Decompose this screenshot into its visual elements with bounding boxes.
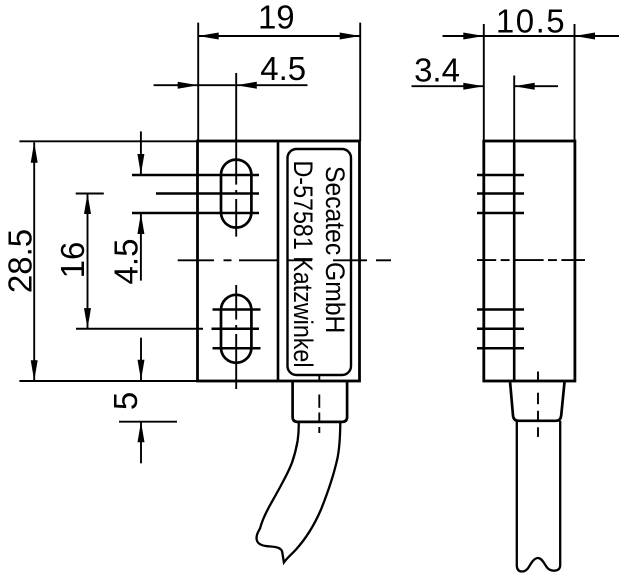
dimension 5: arrowheads outside bbox=[138, 360, 145, 381]
slot 2 middle tick line bbox=[212, 327, 260, 330]
front view body outline bbox=[198, 141, 360, 381]
boot/cable centerline side bbox=[537, 372, 539, 437]
svg-text:28.5: 28.5 bbox=[2, 229, 39, 293]
dimension 3.4: extension line bbox=[513, 76, 515, 142]
dimension 4.5 vertical: arrow tails bbox=[140, 131, 142, 175]
svg-text:19: 19 bbox=[258, 0, 295, 35]
dimension 28.5: dimension line bbox=[33, 142, 35, 380]
dimension 5: arrow tails bbox=[140, 338, 142, 381]
dimension 19: dimension line bbox=[198, 35, 360, 37]
dimension 28.5: extension lines bbox=[19, 140, 197, 142]
slot 2 upper tick line bbox=[213, 308, 261, 311]
slot hole 2 (bottom stadium) bbox=[221, 295, 251, 363]
svg-text:4.5: 4.5 bbox=[107, 239, 144, 285]
svg-text:Secatec GmbH: Secatec GmbH bbox=[320, 166, 349, 333]
side view body outline bbox=[484, 141, 575, 381]
svg-text:5: 5 bbox=[107, 392, 144, 410]
cable front view (curved, broken end) bbox=[257, 422, 341, 563]
side view tick lines lower bbox=[477, 308, 524, 311]
dimension 19: arrowheads bbox=[198, 33, 219, 40]
slot 1 lower tick line bbox=[132, 212, 259, 215]
dimension 3.4: dimension line and tails bbox=[412, 85, 484, 87]
svg-text:16: 16 bbox=[54, 242, 91, 279]
dimension 4.5 top: arrowheads outside bbox=[178, 82, 199, 89]
horizontal centerline side view bbox=[477, 259, 585, 261]
dimension 28.5: arrowheads bbox=[31, 142, 38, 163]
dimension 16: dimension line bbox=[87, 194, 89, 329]
side view tick lines upper bbox=[477, 174, 524, 177]
front view inner divider line bbox=[277, 141, 280, 381]
svg-text:D-57581 Katzwinkel: D-57581 Katzwinkel bbox=[288, 161, 318, 368]
dimension 16: arrowheads bbox=[84, 194, 91, 215]
slot 2 middle extension (16-dim reference) bbox=[76, 328, 203, 330]
slot 1 middle tick (16-dim reference) bbox=[76, 193, 104, 195]
svg-text:10.5: 10.5 bbox=[496, 3, 566, 40]
dimension 10.5: arrowheads outside bbox=[463, 33, 484, 40]
dimension 10.5: extension lines bbox=[483, 24, 485, 141]
slot 1 middle tick line bbox=[156, 192, 259, 195]
label plate rounded rectangle bbox=[288, 149, 352, 375]
svg-text:4.5: 4.5 bbox=[260, 50, 306, 87]
dimension 5: extension line bottom bbox=[119, 421, 177, 423]
slot hole 1 (top stadium) bbox=[221, 160, 251, 228]
vertical centerline through slots bbox=[235, 73, 237, 389]
dimension 10.5: dimension line through bbox=[443, 35, 620, 37]
svg-text:3.4: 3.4 bbox=[414, 52, 460, 89]
slot 1 upper tick line bbox=[132, 174, 259, 177]
dimension 4.5 vertical: arrowheads outside bbox=[137, 154, 144, 175]
dimension 3.4: arrowheads outside bbox=[463, 83, 484, 90]
cable boot side view bbox=[510, 381, 565, 421]
slot 2 lower tick line bbox=[213, 347, 261, 350]
cable side view (straight, broken end) bbox=[517, 421, 560, 572]
cable boot front view bbox=[293, 381, 348, 422]
side view inner line bbox=[513, 141, 516, 381]
boot centerline front bbox=[318, 375, 320, 433]
dimension 4.5 top: dimension line and tails bbox=[154, 84, 237, 86]
horizontal centerline front view bbox=[178, 259, 391, 261]
dimension 19: extension lines bbox=[197, 23, 199, 141]
